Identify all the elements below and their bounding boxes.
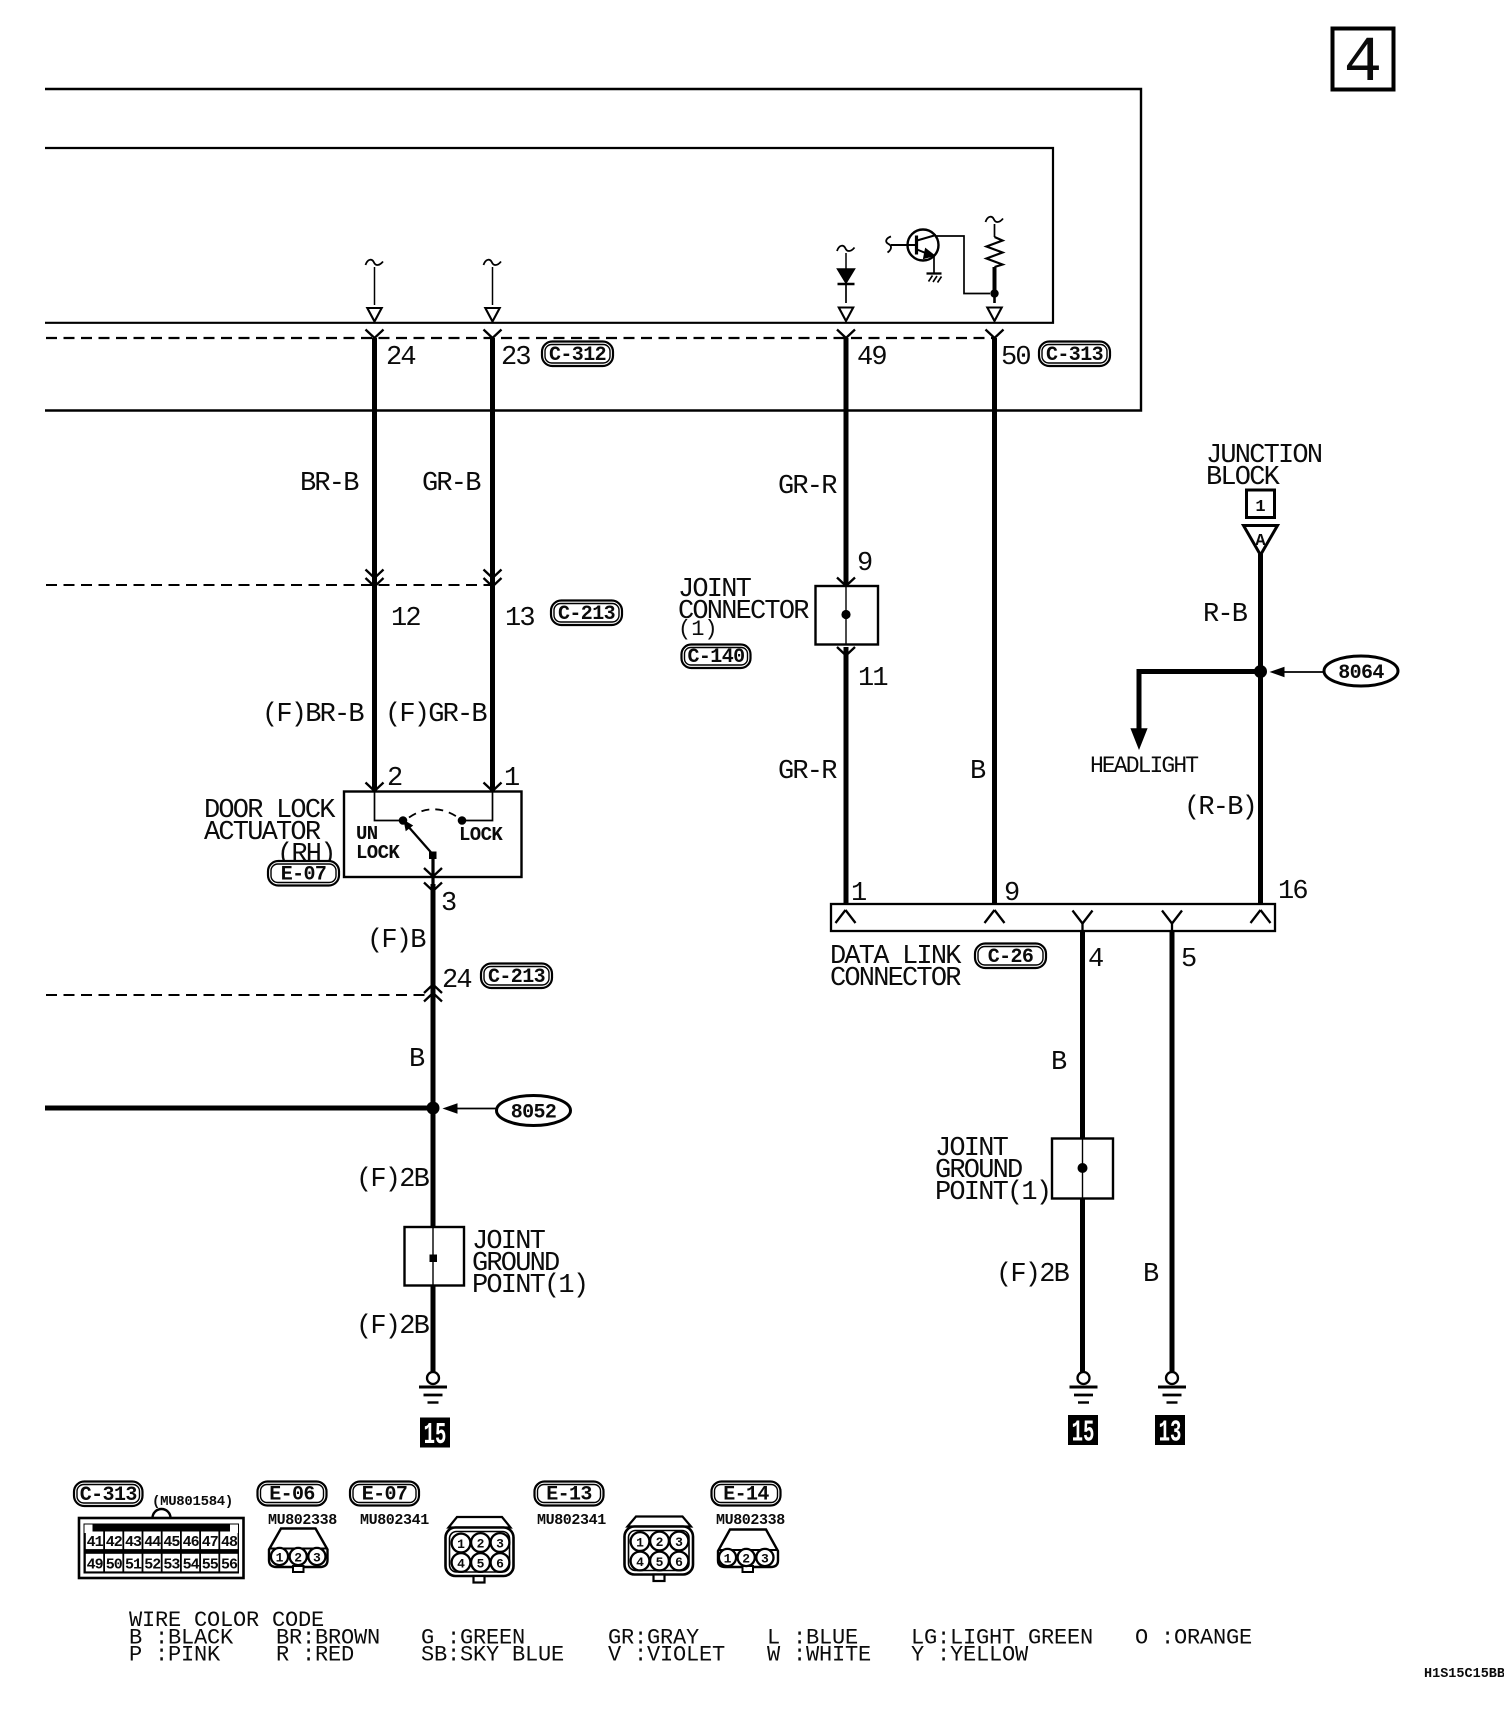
svg-text:R :RED: R :RED xyxy=(276,1643,354,1668)
switch contact UNLOCK (node) xyxy=(399,816,408,825)
svg-text:6: 6 xyxy=(496,1556,504,1571)
data link connector C-26 box xyxy=(831,904,1275,931)
svg-text:4: 4 xyxy=(636,1555,644,1570)
svg-text:(F)GR-B: (F)GR-B xyxy=(385,700,487,730)
junction block triangle A xyxy=(1244,526,1278,556)
svg-text:(R-B): (R-B) xyxy=(1184,793,1256,823)
internal output arrow to pin 23 xyxy=(484,260,502,322)
svg-text:23: 23 xyxy=(501,343,530,373)
svg-text:46: 46 xyxy=(183,1534,200,1551)
switch arm (to UNLOCK) xyxy=(404,821,432,854)
wire GR-B (pin 23 to door lock pin 1) xyxy=(490,338,495,791)
DLC pin 1 chevron xyxy=(836,910,856,923)
joint ground point (1) box - left xyxy=(405,1227,465,1286)
svg-text:5: 5 xyxy=(1181,945,1196,975)
svg-text:55: 55 xyxy=(202,1556,219,1573)
callout arrow from 8052 xyxy=(444,1104,497,1113)
svg-text:GR-R: GR-R xyxy=(778,472,837,502)
connector tag C-213 (lower) xyxy=(481,964,552,989)
svg-text:(F)B: (F)B xyxy=(367,926,426,956)
door lock pin 2 entry chevron xyxy=(366,783,384,792)
svg-text:45: 45 xyxy=(163,1534,180,1551)
svg-text:3: 3 xyxy=(761,1551,769,1566)
svg-text:9: 9 xyxy=(857,549,872,579)
svg-text:54: 54 xyxy=(183,1556,200,1573)
switch throw dashed arc xyxy=(409,809,458,817)
DLC pin 5 chevron xyxy=(1162,911,1182,932)
node 8064 junction xyxy=(1254,665,1267,678)
svg-text:POINT(1): POINT(1) xyxy=(935,1178,1050,1208)
svg-text:53: 53 xyxy=(163,1556,180,1573)
connector C-213 dashed boundary (upper) xyxy=(46,584,500,586)
svg-text:E-14: E-14 xyxy=(723,1484,769,1507)
svg-text:O :ORANGE: O :ORANGE xyxy=(1135,1626,1252,1651)
svg-text:(1): (1) xyxy=(678,617,718,642)
ground reference 15 (right) xyxy=(1068,1415,1098,1445)
svg-text:4: 4 xyxy=(1088,945,1103,975)
svg-text:LOCK: LOCK xyxy=(356,842,400,864)
pin 49 entry chevron xyxy=(837,330,855,339)
svg-text:HEADLIGHT: HEADLIGHT xyxy=(1090,753,1198,779)
svg-text:41: 41 xyxy=(87,1534,104,1551)
svg-text:C-140: C-140 xyxy=(687,646,744,669)
svg-text:E-07: E-07 xyxy=(362,1484,408,1507)
svg-text:13: 13 xyxy=(1159,1415,1182,1450)
wire - node to pin 50 arrow xyxy=(987,295,1001,321)
door lock pin 1 entry chevron xyxy=(484,783,502,792)
svg-text:(F)2B: (F)2B xyxy=(356,1165,430,1195)
svg-text:(F)2B: (F)2B xyxy=(356,1312,430,1342)
svg-text:MU802338: MU802338 xyxy=(268,1512,337,1529)
connector tag E-07 (component) xyxy=(268,861,339,886)
ground reference 13 xyxy=(1155,1415,1185,1445)
pin 24 entry chevron xyxy=(366,330,384,339)
connector tag E-07 xyxy=(350,1482,419,1506)
svg-text:49: 49 xyxy=(857,343,886,373)
C-213 crossing chevrons on BR-B wire xyxy=(366,570,384,587)
svg-text:C-313: C-313 xyxy=(1046,344,1103,367)
wire color code row 2 xyxy=(129,1643,1029,1668)
connector tag C-140 xyxy=(682,645,751,669)
internal output arrow to pin 24 xyxy=(366,260,384,322)
svg-text:MU802338: MU802338 xyxy=(716,1512,785,1529)
svg-text:SB:SKY BLUE: SB:SKY BLUE xyxy=(421,1643,564,1668)
wire B (DLC pin 4 to joint ground) xyxy=(1080,931,1085,1139)
svg-text:P :PINK: P :PINK xyxy=(129,1643,221,1668)
pin 23 entry chevron xyxy=(484,330,502,339)
svg-text:12: 12 xyxy=(391,604,420,634)
resistor R1 (internal, above pin 50) xyxy=(986,217,1004,292)
svg-text:GR-R: GR-R xyxy=(778,757,837,787)
svg-text:8064: 8064 xyxy=(1338,662,1384,685)
connector drawing E-06 (3-pin trapezoid) xyxy=(269,1529,328,1573)
switch wire from pin 2 xyxy=(375,792,400,821)
door lock actuator (RH) box xyxy=(344,792,522,878)
svg-text:1: 1 xyxy=(636,1535,644,1550)
svg-text:50: 50 xyxy=(106,1556,123,1573)
svg-text:C-26: C-26 xyxy=(988,946,1034,969)
transistor emitter ground xyxy=(927,274,942,283)
transistor Q1 (internal) xyxy=(886,230,938,273)
connector C-312/C-313 boundary dashed line xyxy=(46,337,995,339)
svg-text:5: 5 xyxy=(656,1555,664,1570)
page number box 4 xyxy=(1333,28,1394,100)
svg-text:3: 3 xyxy=(313,1550,321,1565)
svg-text:4: 4 xyxy=(457,1556,465,1571)
svg-text:(F)2B: (F)2B xyxy=(996,1260,1070,1290)
svg-text:CONNECTOR: CONNECTOR xyxy=(830,964,961,994)
wire - headlight branch xyxy=(1132,672,1261,749)
wire B (DLC pin 5 to ground) xyxy=(1170,931,1175,1372)
wire B (pin 50 to DLC pin 9) xyxy=(992,338,997,904)
svg-text:56: 56 xyxy=(221,1556,238,1573)
svg-text:V :VIOLET: V :VIOLET xyxy=(608,1643,725,1668)
svg-text:C-313: C-313 xyxy=(80,1484,137,1507)
node 8052 junction xyxy=(427,1102,440,1115)
connector tag E-14 xyxy=(712,1482,781,1506)
joint connector (1) box xyxy=(816,586,879,645)
svg-text:E-07: E-07 xyxy=(281,864,327,887)
wire R-B (junction block to DLC pin 16) xyxy=(1258,554,1263,904)
svg-text:2: 2 xyxy=(742,1551,750,1566)
ground symbol - right 1 xyxy=(1078,1372,1090,1384)
wire (F)2B to joint ground point xyxy=(431,1108,436,1227)
svg-text:B: B xyxy=(409,1045,425,1075)
pin 50 entry chevron xyxy=(986,330,1004,339)
svg-text:24: 24 xyxy=(442,966,471,996)
svg-text:MU802341: MU802341 xyxy=(537,1512,606,1529)
connector drawing C-313 (16-pin) xyxy=(79,1509,244,1578)
ground reference 15 (left) xyxy=(420,1418,450,1448)
svg-text:POINT(1): POINT(1) xyxy=(472,1271,587,1301)
svg-text:B: B xyxy=(1051,1048,1067,1078)
svg-text:15: 15 xyxy=(424,1418,447,1453)
svg-text:C-213: C-213 xyxy=(558,603,615,626)
joint ground point (1) box - right xyxy=(1052,1139,1113,1199)
switch contact LOCK (node) xyxy=(458,816,467,825)
wire - collector to resistor node xyxy=(936,236,990,294)
svg-text:47: 47 xyxy=(202,1534,218,1551)
svg-text:50: 50 xyxy=(1001,343,1030,373)
svg-text:E-06: E-06 xyxy=(269,1484,315,1507)
svg-text:2: 2 xyxy=(477,1536,485,1551)
ground symbol - left xyxy=(427,1372,439,1384)
DLC pin 9 chevron xyxy=(985,910,1005,923)
svg-text:4: 4 xyxy=(1344,28,1382,100)
node: resistor-collector junction xyxy=(990,289,998,297)
junction block box 1 xyxy=(1247,490,1275,518)
svg-text:C-312: C-312 xyxy=(549,344,606,367)
C-213 crossing chevrons on GR-B wire xyxy=(484,570,502,587)
svg-text:2: 2 xyxy=(387,764,402,794)
connector tag C-313 xyxy=(1039,342,1110,367)
svg-text:(F)BR-B: (F)BR-B xyxy=(262,700,364,730)
svg-text:Y :YELLOW: Y :YELLOW xyxy=(911,1643,1029,1668)
wire (F)B pin3 to ground junction xyxy=(431,884,436,1108)
connector drawing E-07 (6-pin) xyxy=(446,1517,514,1583)
svg-text:48: 48 xyxy=(221,1534,238,1551)
svg-text:13: 13 xyxy=(505,604,534,634)
connector tag C-26 xyxy=(975,944,1046,969)
svg-text:E-13: E-13 xyxy=(546,1484,592,1507)
svg-text:1: 1 xyxy=(724,1551,732,1566)
connector tag C-213 (upper) xyxy=(551,601,622,626)
wire (F)2B to ground - left xyxy=(431,1285,436,1372)
ground symbol - right 2 xyxy=(1166,1372,1178,1384)
joint connector entry chevron xyxy=(837,578,855,587)
callout oval 8064 xyxy=(1324,656,1398,686)
svg-text:1: 1 xyxy=(1255,498,1265,517)
svg-text:3: 3 xyxy=(496,1536,504,1551)
wire GR-R (pin 49 to joint connector) xyxy=(844,338,849,586)
svg-text:(MU801584): (MU801584) xyxy=(152,1494,233,1510)
svg-text:24: 24 xyxy=(386,343,415,373)
svg-text:5: 5 xyxy=(477,1556,485,1571)
svg-text:B: B xyxy=(1143,1260,1159,1290)
svg-text:2: 2 xyxy=(294,1550,302,1565)
wire - thick bus to joint ground (from page left) xyxy=(45,1106,433,1111)
svg-text:16: 16 xyxy=(1278,877,1307,907)
svg-text:42: 42 xyxy=(106,1534,123,1551)
svg-text:W :WHITE: W :WHITE xyxy=(767,1643,871,1668)
svg-text:LOCK: LOCK xyxy=(459,824,503,846)
joint connector exit chevron xyxy=(837,647,855,656)
ECU inner box (open left) xyxy=(45,148,1053,323)
svg-text:B: B xyxy=(970,757,986,787)
wire color code row 1 xyxy=(129,1626,1252,1651)
svg-text:52: 52 xyxy=(144,1556,161,1573)
wire GR-R (joint connector to DLC pin 1) xyxy=(844,647,849,904)
svg-text:51: 51 xyxy=(125,1556,142,1573)
svg-text:15: 15 xyxy=(1072,1415,1095,1450)
svg-text:8052: 8052 xyxy=(511,1102,557,1125)
svg-text:C-213: C-213 xyxy=(488,966,545,989)
switch wire from pin 1 xyxy=(466,792,493,821)
svg-text:43: 43 xyxy=(125,1534,142,1551)
svg-text:BR-B: BR-B xyxy=(300,469,359,499)
door lock pin 3 wire + exit chevrons xyxy=(424,859,442,891)
connector tag C-313 (bottom) xyxy=(74,1482,143,1507)
connector drawing E-13 (6-pin) xyxy=(625,1517,694,1582)
wire BR-B (pin 24 to door lock pin 2) xyxy=(372,338,377,791)
svg-text:44: 44 xyxy=(144,1534,161,1551)
C-213 lower crossing chevrons (pointing up) xyxy=(424,985,442,1002)
diode D1 (internal, above pin 49) xyxy=(837,246,855,321)
connector C-213 dashed boundary (lower) xyxy=(46,994,433,996)
connector tag E-13 xyxy=(535,1482,604,1506)
svg-text:2: 2 xyxy=(656,1535,664,1550)
DLC pin 4 chevron xyxy=(1073,911,1093,932)
svg-text:R-B: R-B xyxy=(1203,600,1248,630)
svg-text:6: 6 xyxy=(675,1555,683,1570)
svg-text:11: 11 xyxy=(858,664,887,694)
svg-text:GR-B: GR-B xyxy=(422,469,481,499)
ECU outer box (open left) xyxy=(45,89,1141,411)
wire (F)2B to ground - right xyxy=(1080,1198,1085,1372)
svg-text:3: 3 xyxy=(675,1535,683,1550)
svg-text:MU802341: MU802341 xyxy=(360,1512,429,1529)
callout arrow from 8064 xyxy=(1271,668,1324,677)
svg-text:49: 49 xyxy=(87,1556,104,1573)
connector tag E-06 xyxy=(258,1482,327,1506)
connector drawing E-14 (3-pin trapezoid) xyxy=(718,1530,778,1573)
callout oval 8052 xyxy=(497,1096,571,1126)
svg-text:1: 1 xyxy=(504,764,519,794)
svg-text:3: 3 xyxy=(441,889,456,919)
switch common contact (square) xyxy=(429,852,437,860)
svg-text:H1S15C15BB: H1S15C15BB xyxy=(1424,1667,1504,1682)
svg-text:1: 1 xyxy=(276,1550,284,1565)
svg-text:1: 1 xyxy=(457,1537,465,1552)
DLC pin 16 chevron xyxy=(1251,910,1271,923)
connector tag C-312 xyxy=(542,342,613,367)
svg-text:A: A xyxy=(1255,532,1266,551)
